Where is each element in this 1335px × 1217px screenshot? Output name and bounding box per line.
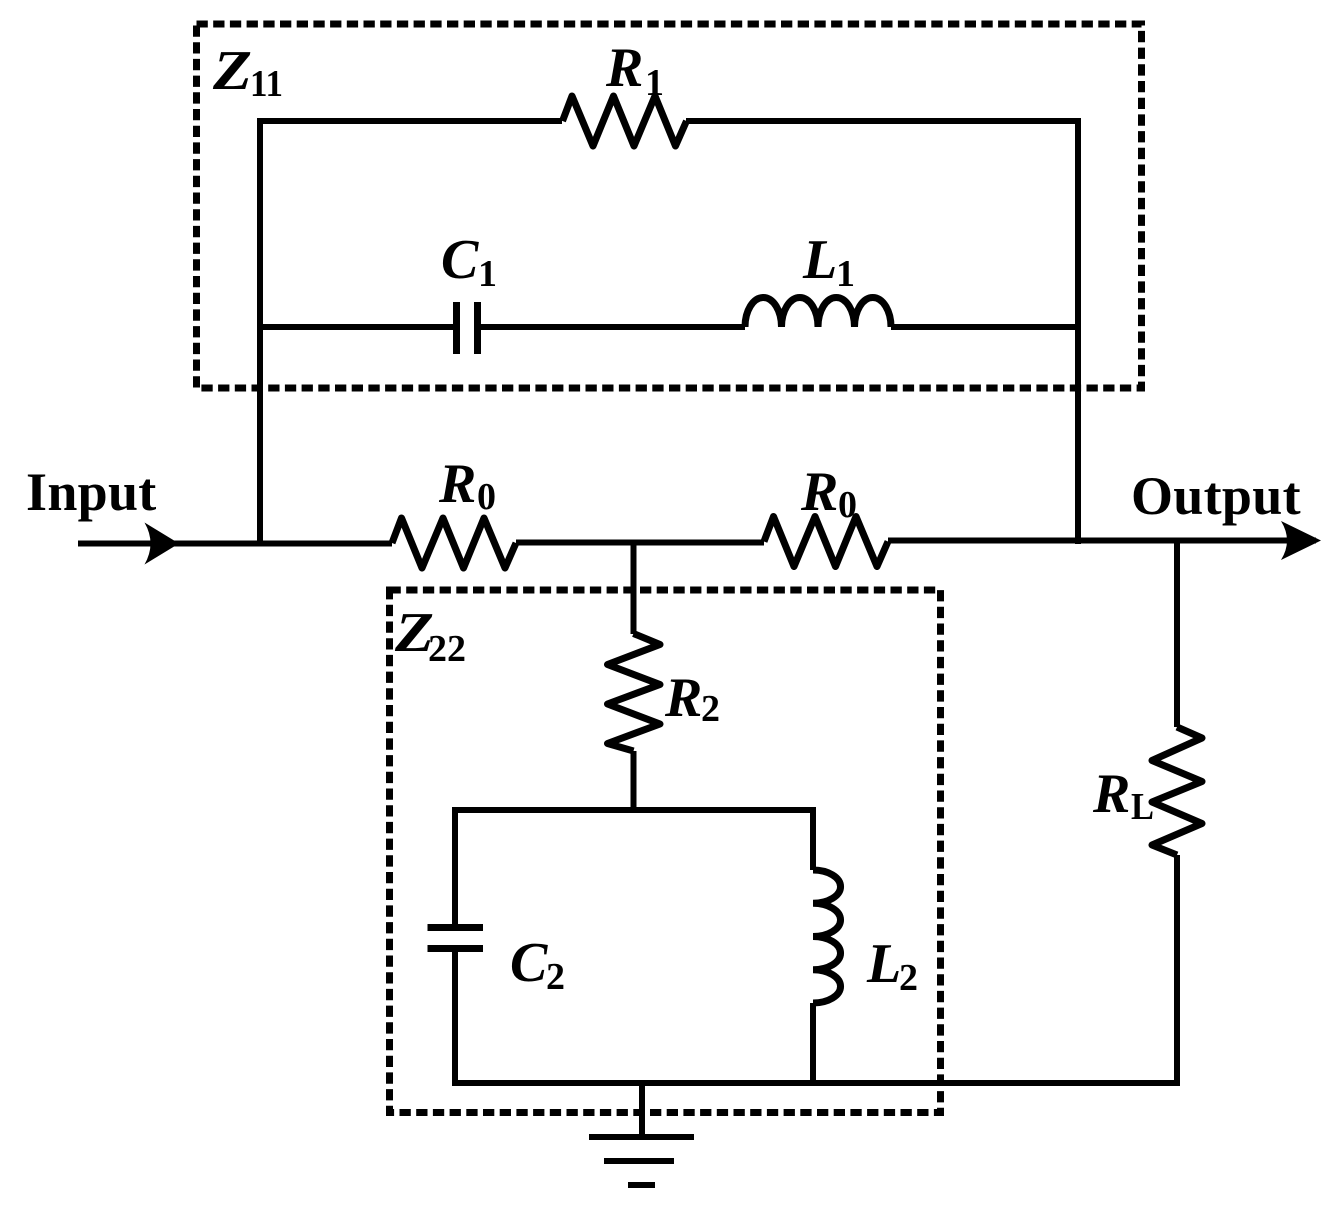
svg-text:Input: Input (26, 462, 157, 522)
svg-text:2: 2 (701, 688, 720, 730)
svg-text:Output: Output (1131, 466, 1301, 526)
svg-text:Z: Z (212, 40, 252, 102)
svg-text:C: C (441, 229, 479, 291)
svg-text:R: R (664, 667, 702, 729)
svg-text:R: R (1092, 763, 1130, 825)
svg-text:22: 22 (428, 628, 466, 670)
svg-text:1: 1 (478, 253, 497, 295)
svg-text:11: 11 (250, 63, 283, 105)
svg-text:R: R (438, 453, 476, 515)
svg-text:R: R (605, 37, 643, 99)
svg-text:2: 2 (546, 956, 565, 998)
svg-text:0: 0 (838, 484, 857, 526)
svg-text:2: 2 (899, 957, 918, 999)
svg-text:1: 1 (645, 62, 664, 104)
svg-text:R: R (800, 461, 838, 523)
svg-text:L: L (866, 933, 901, 995)
svg-text:L: L (802, 229, 837, 291)
svg-text:C: C (510, 932, 548, 994)
svg-text:L: L (1131, 786, 1154, 828)
svg-text:1: 1 (836, 253, 855, 295)
svg-text:0: 0 (477, 476, 496, 518)
